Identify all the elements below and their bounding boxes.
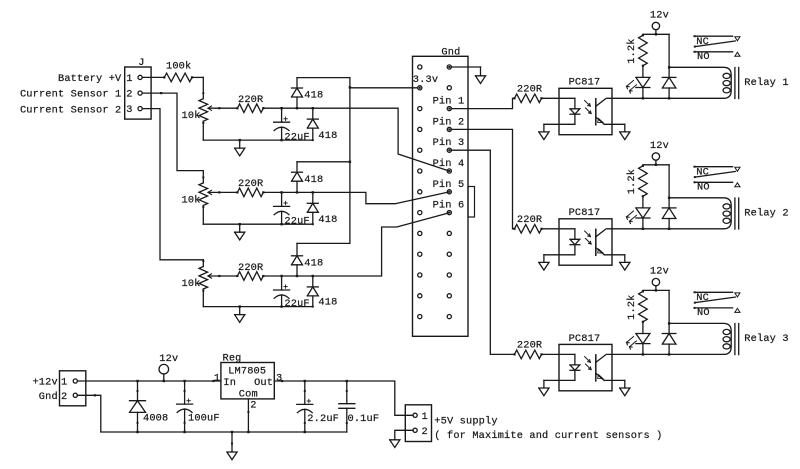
svg-text:Pin 4: Pin 4 <box>433 158 465 170</box>
svg-text:J: J <box>138 57 144 69</box>
svg-text:1: 1 <box>422 411 428 423</box>
svg-text:0.1uF: 0.1uF <box>348 413 380 425</box>
svg-text:2: 2 <box>126 89 132 101</box>
svg-text:10k: 10k <box>182 278 201 290</box>
svg-text:LM7805: LM7805 <box>228 366 266 378</box>
svg-text:10k: 10k <box>182 110 201 122</box>
svg-text:3: 3 <box>276 372 282 384</box>
svg-text:Gnd: Gnd <box>441 47 460 59</box>
svg-text:220R: 220R <box>238 178 263 190</box>
svg-text:12v: 12v <box>650 140 669 152</box>
svg-text:100k: 100k <box>166 61 191 73</box>
svg-text:10k: 10k <box>182 194 201 206</box>
svg-text:418: 418 <box>304 174 323 186</box>
svg-text:2: 2 <box>422 426 428 438</box>
svg-text:Relay 1: Relay 1 <box>744 77 788 89</box>
svg-text:1: 1 <box>126 73 132 85</box>
svg-text:Battery +V: Battery +V <box>58 73 122 85</box>
svg-text:2: 2 <box>250 399 256 411</box>
svg-text:Relay 2: Relay 2 <box>744 207 788 219</box>
svg-text:Pin 6: Pin 6 <box>433 200 465 212</box>
svg-text:1.2k: 1.2k <box>626 169 638 194</box>
svg-text:12v: 12v <box>159 353 178 365</box>
svg-text:PC817: PC817 <box>569 77 601 89</box>
svg-text:22uF: 22uF <box>284 298 309 310</box>
svg-text:Pin 3: Pin 3 <box>433 137 465 149</box>
svg-text:PC817: PC817 <box>569 207 601 219</box>
svg-text:418: 418 <box>318 130 337 142</box>
svg-text:2: 2 <box>61 391 67 403</box>
svg-text:Pin 5: Pin 5 <box>433 179 465 191</box>
svg-text:1.2k: 1.2k <box>626 295 638 320</box>
svg-text:220R: 220R <box>238 262 263 274</box>
svg-text:220R: 220R <box>517 214 542 226</box>
svg-text:100uF: 100uF <box>188 413 220 425</box>
svg-text:22uF: 22uF <box>284 215 309 227</box>
svg-text:Pin 2: Pin 2 <box>433 116 465 128</box>
svg-text:+5V supply: +5V supply <box>434 415 497 427</box>
svg-text:22uF: 22uF <box>284 131 309 143</box>
svg-text:220R: 220R <box>517 83 542 95</box>
svg-text:Current Sensor 2: Current Sensor 2 <box>20 104 121 116</box>
svg-text:12v: 12v <box>650 266 669 278</box>
svg-text:+12v: +12v <box>32 377 57 389</box>
svg-text:Reg: Reg <box>223 352 242 364</box>
svg-text:Pin 1: Pin 1 <box>433 96 465 108</box>
svg-text:NO: NO <box>697 182 710 194</box>
svg-text:1.2k: 1.2k <box>626 38 638 63</box>
svg-text:2.2uF: 2.2uF <box>307 413 339 425</box>
svg-text:12v: 12v <box>650 10 669 22</box>
svg-text:220R: 220R <box>238 94 263 106</box>
svg-text:1: 1 <box>214 372 220 384</box>
svg-text:1: 1 <box>61 377 67 389</box>
svg-text:3: 3 <box>126 104 132 116</box>
svg-text:Gnd: Gnd <box>39 391 58 403</box>
svg-text:In: In <box>223 377 236 389</box>
svg-text:Relay 3: Relay 3 <box>744 333 788 345</box>
svg-text:418: 418 <box>318 214 337 226</box>
svg-text:NO: NO <box>697 51 710 63</box>
svg-text:3.3v: 3.3v <box>413 74 438 86</box>
svg-text:418: 418 <box>304 90 323 102</box>
svg-text:( for Maximite and current sen: ( for Maximite and current sensors ) <box>434 430 662 442</box>
svg-text:4008: 4008 <box>143 413 168 425</box>
svg-text:PC817: PC817 <box>569 333 601 345</box>
svg-text:220R: 220R <box>517 339 542 351</box>
svg-text:418: 418 <box>318 297 337 309</box>
svg-text:418: 418 <box>304 258 323 270</box>
svg-text:Current Sensor 1: Current Sensor 1 <box>20 89 121 101</box>
svg-text:NO: NO <box>697 307 710 319</box>
